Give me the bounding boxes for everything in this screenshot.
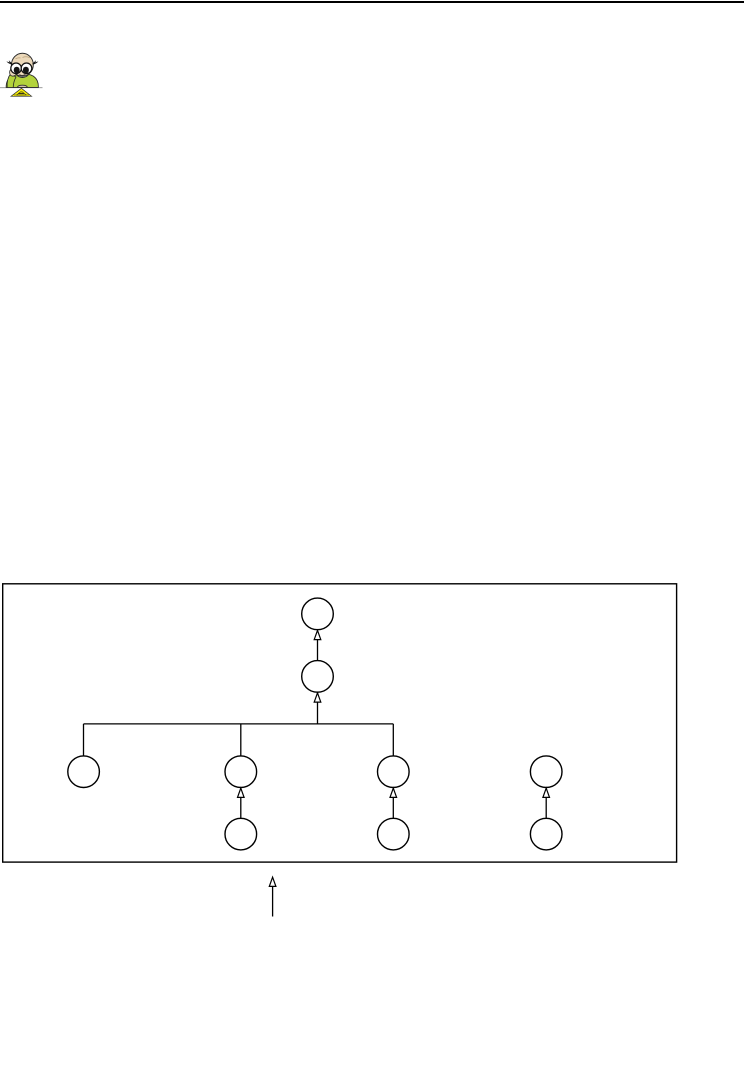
callout arrow below box: head: [269, 877, 276, 886]
wire: arrow stem connector to C2: [317, 693, 319, 724]
sweater body: [6, 74, 38, 87]
node B2 bottom circle: [225, 818, 257, 850]
wire: arrow stem B3 to L3: [392, 788, 394, 818]
node L2 row circle: [225, 756, 257, 788]
node C2 second circle: [302, 661, 334, 693]
left forearm raised: [7, 74, 16, 88]
left pupil: [14, 67, 20, 74]
wire: arrow stem C2 to C1: [317, 631, 319, 662]
pyramid dark keys: [18, 93, 25, 94]
wire: arrow stem B4 to L4: [545, 788, 547, 818]
wire: horizontal connector: [84, 723, 394, 725]
hand on cheek: [10, 68, 17, 76]
wire: stub to third circle: [392, 724, 394, 757]
wire: stub to second circle: [240, 724, 242, 757]
right pupil: [23, 67, 29, 74]
exercise icon (thinking person at desk): [0, 53, 43, 96]
arrowhead B3 to L3: [390, 788, 397, 797]
node C1 top circle: [302, 598, 334, 630]
arrowhead C2 to C1: [314, 630, 321, 639]
mouth: [19, 74, 25, 77]
diagram frame box: [3, 584, 677, 862]
arrowhead connector to C2: [314, 693, 321, 702]
yellow pyramid: [11, 88, 32, 96]
node B4 bottom circle: [530, 818, 562, 850]
right lens: [21, 63, 32, 74]
node L4 row circle: [530, 756, 562, 788]
node L3 row circle: [378, 756, 410, 788]
right hair tuft: [32, 60, 38, 64]
callout arrow below box: stem: [272, 887, 274, 917]
pyramid inner lines: [14, 91, 29, 95]
left lens: [11, 63, 22, 74]
wire: stub to left circle: [83, 724, 85, 757]
wire: arrow stem B2 to L2: [240, 788, 242, 818]
desk line: [0, 87, 43, 89]
hands on desk: [17, 85, 27, 87]
top rule: [0, 1, 744, 3]
forehead creases: [16, 57, 31, 59]
node L1 row circle: [68, 756, 100, 788]
head: [12, 53, 34, 76]
node B3 bottom circle: [378, 818, 410, 850]
arrowhead B4 to L4: [543, 788, 550, 797]
left hair tuft: [6, 60, 12, 64]
arrowhead B2 to L2: [238, 788, 245, 797]
